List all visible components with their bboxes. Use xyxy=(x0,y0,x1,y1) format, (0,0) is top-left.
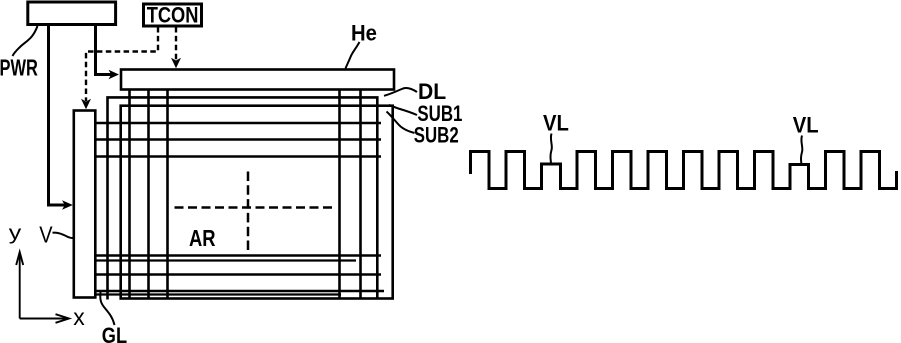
svg-text:y: y xyxy=(9,222,22,244)
leader He xyxy=(346,42,360,69)
svg-text:V: V xyxy=(39,221,53,248)
substrate SUB1 rectangle xyxy=(108,97,378,299)
data line DL 2 xyxy=(147,90,150,300)
gate line GL 7 xyxy=(96,290,384,293)
leader VL second xyxy=(801,136,802,165)
leader PWR xyxy=(13,26,38,56)
gate line GL 1 xyxy=(96,122,381,125)
arrowhead into He top xyxy=(171,58,181,69)
arrowhead into He left xyxy=(109,70,120,80)
data line DL 5 xyxy=(359,90,362,300)
dashed wire TCON to He bar xyxy=(175,27,177,60)
svg-text:x: x xyxy=(73,304,85,330)
gate line GL 3 xyxy=(96,155,381,158)
data line DL 1 xyxy=(128,90,131,300)
gate line GL 6 xyxy=(96,273,381,276)
svg-text:PWR: PWR xyxy=(0,56,38,81)
label DL xyxy=(418,79,446,105)
label V xyxy=(39,221,53,248)
gate line GL 2 xyxy=(96,138,381,141)
leader DL xyxy=(384,88,417,96)
svg-text:VL: VL xyxy=(793,114,819,138)
svg-text:He: He xyxy=(351,22,377,46)
label VL second xyxy=(793,114,819,138)
power supply box PWR xyxy=(28,2,116,25)
label SUB1 xyxy=(417,102,462,127)
heater bar He xyxy=(121,70,394,90)
leader V xyxy=(53,233,73,238)
label y xyxy=(9,222,22,244)
svg-text:SUB2: SUB2 xyxy=(414,123,459,148)
data line DL 3 xyxy=(166,90,169,300)
label He xyxy=(351,22,377,46)
dashed wire TCON to V driver xyxy=(86,27,158,101)
active region dashed cross xyxy=(175,206,336,209)
substrate SUB2 rectangle xyxy=(121,106,393,299)
svg-text:GL: GL xyxy=(102,324,127,343)
leader SUB1 xyxy=(389,105,417,115)
svg-text:AR: AR xyxy=(189,226,216,251)
label PWR xyxy=(0,56,38,81)
gate line GL 5 xyxy=(96,259,356,261)
waveform VL square wave xyxy=(471,152,897,189)
arrowhead into V box left xyxy=(62,200,73,210)
label x xyxy=(73,304,85,330)
axis x arrow xyxy=(20,318,67,320)
label GL xyxy=(102,324,127,343)
wire PWR to He bar (solid) xyxy=(96,25,113,75)
svg-text:VL: VL xyxy=(543,112,569,136)
wire PWR to V driver (solid, left) xyxy=(49,25,67,205)
driver box V xyxy=(74,111,96,298)
timing controller box TCON xyxy=(144,4,202,26)
data line DL 4 xyxy=(338,90,341,300)
label SUB2 xyxy=(414,123,459,148)
leader GL xyxy=(100,292,114,325)
arrowhead into V box top xyxy=(81,99,91,110)
label TCON xyxy=(147,4,199,28)
label AR xyxy=(189,226,216,251)
label VL first xyxy=(543,112,569,136)
gate line GL 8 xyxy=(96,293,341,295)
leader VL first xyxy=(551,134,552,164)
svg-text:DL: DL xyxy=(418,79,446,105)
axis y arrow xyxy=(19,253,21,319)
svg-text:TCON: TCON xyxy=(147,4,199,28)
leader SUB2 xyxy=(387,112,415,134)
gate line GL 4 xyxy=(96,254,381,257)
